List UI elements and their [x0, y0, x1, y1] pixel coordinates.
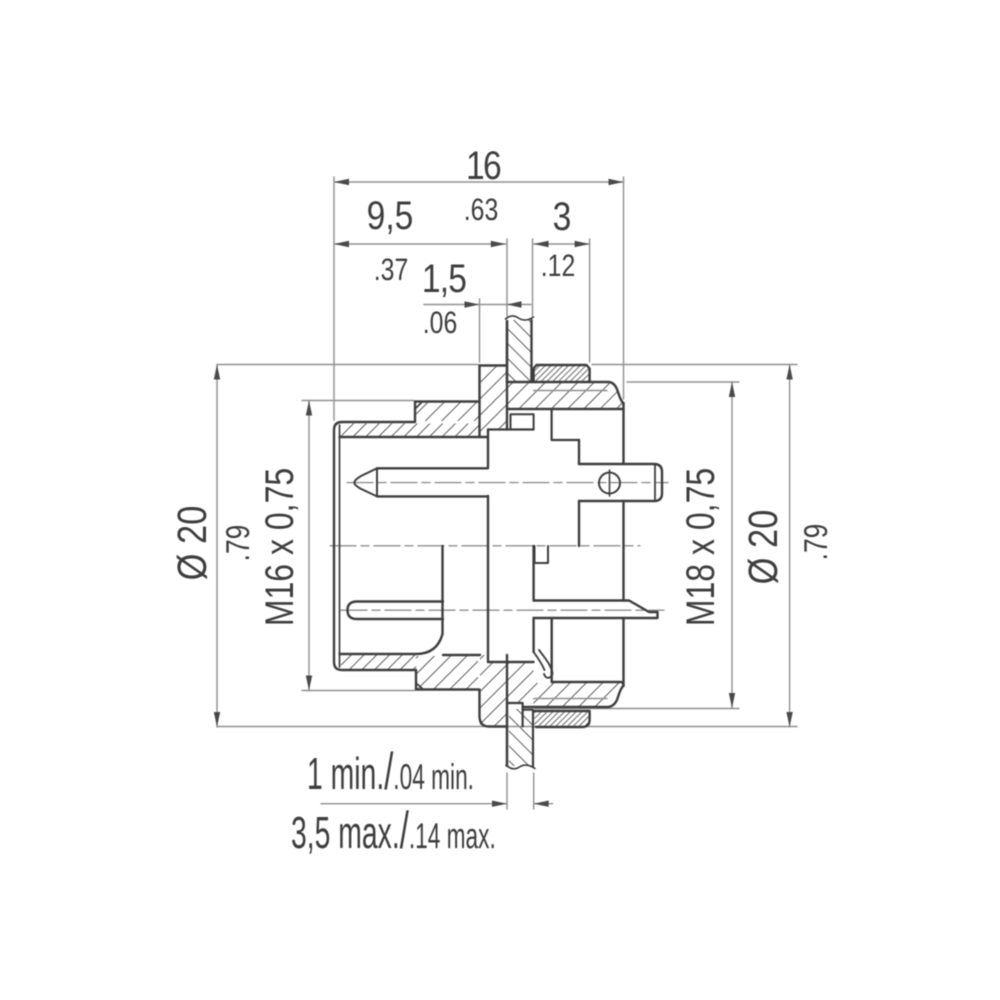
insert front face bottom cut: [441, 546, 443, 634]
text .12: [541, 248, 575, 283]
sleeve chamfer top: [415, 402, 423, 410]
text 1,5: [422, 257, 466, 301]
dimension line M16: [308, 401, 310, 691]
rear face middle: [622, 501, 624, 601]
hatch panel top: [508, 320, 531, 382]
hatch body under insert bottom: [507, 662, 534, 703]
text .79 right: [797, 524, 834, 561]
dimension line 9,5: [334, 243, 506, 245]
hatch cup wall bottom band: [341, 655, 416, 669]
text 16: [466, 144, 501, 188]
text 9,5: [367, 194, 414, 238]
neck bore bottom: [552, 682, 624, 685]
insert back face mid: [578, 501, 580, 546]
panel bottom wall: [507, 703, 533, 767]
centerline main axis: [330, 545, 640, 547]
dimension line M18: [731, 382, 733, 708]
top pin bullet tip: [354, 468, 377, 496]
neck bore top: [507, 408, 624, 410]
insert block bottom: [488, 661, 534, 663]
nut bottom: [534, 711, 590, 727]
thread root line bottom: [534, 698, 607, 700]
text .79 left: [219, 525, 256, 562]
svg-text:.37: .37: [374, 252, 408, 287]
svg-text:.79: .79: [219, 525, 256, 562]
bore bottom left vertical: [551, 619, 553, 682]
top pin body: [377, 468, 488, 496]
text 1 min / .04 min: [307, 743, 474, 801]
text .06: [423, 305, 457, 340]
bottom terminal: [534, 601, 658, 619]
bottom pin: [348, 602, 444, 620]
lug hole vertical centerline: [609, 470, 611, 496]
hatch M16 sleeve top: [415, 403, 480, 422]
dimension line 16: [334, 181, 624, 183]
top pin shoulder: [376, 468, 378, 496]
lug hole circle: [599, 473, 620, 494]
insert front face top: [487, 430, 489, 468]
extension M16 top: [302, 400, 414, 402]
text 3,5 max / .14 max: [291, 802, 496, 860]
extension M16 bottom: [302, 690, 415, 692]
dimension line 1,5: [424, 304, 531, 306]
sleeve chamfer bottom: [416, 683, 424, 690]
insert front face: [487, 496, 489, 662]
extension line 16 left: [333, 177, 335, 420]
text .63: [464, 192, 498, 227]
flange back face line: [506, 321, 508, 430]
extension dia20 left top: [217, 364, 478, 366]
panel top wall: [507, 320, 532, 383]
hatch nut bottom: [535, 712, 589, 727]
extension M18 top: [627, 381, 739, 383]
text dia 20 right: [740, 510, 786, 585]
svg-text:M18 x 0,75: M18 x 0,75: [679, 468, 723, 626]
nut top: [534, 365, 590, 382]
hatch M16 sleeve bottom: [416, 656, 478, 689]
lug end inner line: [654, 465, 656, 501]
dimension line dia 20 left: [216, 365, 218, 728]
centerline top pin: [347, 482, 668, 484]
flange bottom edge: [489, 725, 507, 727]
svg-text:.79: .79: [797, 524, 834, 561]
cup outer profile: [334, 402, 480, 690]
text M16 x 0,75: [258, 468, 302, 626]
flange back face bottom line: [506, 655, 508, 766]
clip hook: [534, 650, 553, 678]
hatch panel bottom: [509, 709, 533, 766]
text dia 20 left: [169, 506, 215, 581]
extension line 16 right: [623, 177, 625, 399]
cup bore bottom line with fillet: [340, 634, 481, 655]
svg-text:.63: .63: [464, 192, 498, 227]
extension line 1,5 left: [479, 299, 481, 362]
extension M18 bottom: [535, 708, 739, 710]
svg-text:1,5: 1,5: [422, 257, 466, 301]
hatch neck wall bottom: [534, 683, 621, 706]
insert block right edge: [532, 546, 534, 652]
text .37: [374, 252, 408, 287]
insert retaining ring box: [511, 414, 534, 429]
insert back face top: [578, 440, 580, 464]
svg-text:3: 3: [553, 195, 572, 239]
flange top edge: [480, 364, 508, 366]
top terminal lug: [579, 464, 662, 501]
insert step lines: [488, 410, 579, 441]
hatch flange bottom: [480, 655, 507, 726]
svg-text:.12: .12: [541, 248, 575, 283]
extension panel left: [506, 773, 508, 809]
key rect: [535, 546, 549, 563]
svg-text:Ø 20: Ø 20: [169, 506, 215, 581]
neck OD bottom with thread runout: [523, 686, 624, 708]
rear face lower: [622, 618, 624, 686]
hatch flange top: [480, 367, 507, 438]
svg-text:M16 x 0,75: M16 x 0,75: [258, 468, 302, 626]
cup front inner face line: [339, 425, 341, 667]
extension line 3 left: [532, 239, 534, 316]
hatch neck wall top: [507, 383, 622, 408]
svg-text:.06: .06: [423, 305, 457, 340]
text M18 x 0,75: [679, 468, 723, 626]
cup bore top line: [340, 436, 489, 438]
svg-text:16: 16: [466, 144, 501, 188]
hatch nut top: [535, 366, 590, 381]
extension dia20 right top: [592, 364, 797, 366]
svg-text:9,5: 9,5: [367, 194, 414, 238]
panel top break line: [506, 316, 534, 320]
rear face upper: [622, 403, 624, 464]
extension panel right: [533, 773, 535, 809]
neck OD top with thread runout: [507, 382, 624, 404]
flange front face bottom: [480, 690, 490, 727]
extension dia20 left bottom: [217, 726, 487, 728]
text 3: [553, 195, 572, 239]
centerline bottom pin: [341, 609, 664, 611]
extension line 3 right: [589, 239, 591, 362]
extension dia20 right bottom: [508, 726, 797, 728]
svg-text:Ø 20: Ø 20: [740, 510, 786, 585]
dimension line panel thickness: [321, 803, 507, 805]
dimension line dia 20 right: [789, 365, 791, 728]
thread root line top: [534, 390, 607, 392]
dimension line 3: [534, 243, 590, 245]
panel bottom break line: [506, 765, 535, 769]
hatch cup wall top band: [341, 424, 480, 437]
flange front face: [478, 366, 480, 438]
extension line 9,5 right / panel front: [506, 239, 508, 316]
